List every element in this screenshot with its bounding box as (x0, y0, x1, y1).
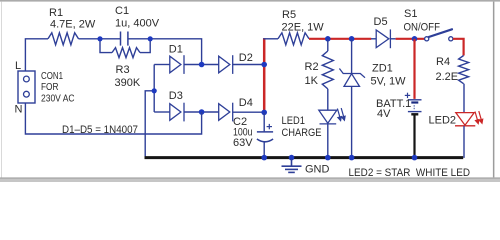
svg-text:63V: 63V (233, 137, 253, 149)
svg-text:D5: D5 (374, 16, 388, 28)
border right (493, 2, 495, 178)
LED LED1 (319, 110, 337, 124)
wire ZD1 to rail (351, 86, 353, 157)
node rail battery (412, 155, 418, 161)
wire D1 row left (154, 64, 170, 66)
wire LED2 to rail (463, 126, 465, 158)
diode D3 (170, 103, 184, 122)
wire D1 to D2 (184, 64, 219, 66)
wire R5 to D5 red (309, 38, 371, 40)
node rail D4 (261, 110, 267, 116)
node D3-D4 (199, 109, 205, 115)
wire D3 row left (154, 111, 170, 113)
svg-text:D1: D1 (169, 44, 183, 56)
C2 plus sign (267, 124, 272, 129)
wire S1 to R4 red (453, 39, 464, 56)
svg-text:LED2 = STAR WHITE LED: LED2 = STAR WHITE LED (349, 167, 471, 179)
svg-text:CON1: CON1 (41, 71, 63, 82)
node rail GND (289, 155, 295, 161)
border bottom line (0, 177, 500, 179)
wire D5 to S1 red (396, 38, 425, 40)
node C1-R3 out (148, 36, 153, 41)
wire R1 to C1 (79, 38, 121, 40)
svg-text:R2: R2 (305, 61, 319, 73)
svg-text:4.7E, 2W: 4.7E, 2W (50, 19, 96, 31)
svg-text:R1: R1 (49, 7, 63, 19)
wire C2 to rail (263, 142, 265, 158)
ground symbol (282, 159, 302, 172)
wire C1 to bridge (128, 39, 202, 65)
wire battery to rail black (413, 115, 415, 157)
svg-text:R4: R4 (436, 56, 450, 68)
svg-text:CHARGE: CHARGE (282, 127, 322, 139)
capacitor C2 (257, 132, 273, 142)
node rail D2 (261, 62, 267, 68)
wire R2 top lead (327, 39, 329, 51)
svg-text:390K: 390K (115, 77, 141, 89)
resistor R5 (278, 33, 309, 45)
svg-text:D4: D4 (239, 97, 253, 109)
svg-text:1u, 400V: 1u, 400V (115, 18, 160, 30)
svg-text:LED1: LED1 (282, 115, 306, 127)
node rail ZD1 (349, 155, 355, 161)
svg-text:D3: D3 (169, 90, 183, 102)
resistor R3 (112, 48, 140, 58)
battery BATT.1 (408, 100, 422, 115)
wire D2 to rail (233, 64, 264, 66)
switch S1 (425, 29, 453, 41)
node ZD1 tap (349, 36, 355, 42)
LED LED2 (455, 113, 475, 126)
connector CON1 (18, 71, 35, 103)
svg-text:1K: 1K (305, 75, 319, 87)
diode D5 (376, 29, 390, 48)
wire rail to R5 (263, 38, 278, 40)
node bridge minus (152, 88, 157, 93)
svg-text:ON/OFF: ON/OFF (404, 22, 441, 34)
zener ZD1 top lead (351, 39, 353, 74)
svg-text:ZD1: ZD1 (372, 63, 393, 75)
border left (1, 2, 2, 178)
wire D4 to rail (233, 111, 264, 113)
svg-text:R5: R5 (282, 9, 296, 21)
node rail LED1 (325, 155, 331, 161)
svg-text:2.2E: 2.2E (436, 71, 459, 83)
svg-text:FOR: FOR (41, 82, 59, 93)
wire R4 to LED2 (463, 84, 465, 113)
LED1 arrows (337, 108, 345, 121)
svg-text:R3: R3 (116, 64, 130, 76)
wire L line top (25, 39, 48, 71)
diode D1 (170, 55, 184, 74)
svg-text:4V: 4V (377, 108, 391, 120)
node R1-C1-R3 (97, 36, 102, 41)
resistor R3 branch (100, 39, 112, 53)
resistor R4 (459, 56, 469, 84)
wire R2 to LED1 (327, 89, 329, 110)
svg-text:S1: S1 (404, 8, 417, 20)
node R2 tap (325, 36, 331, 42)
wire rail to C2 (263, 113, 265, 132)
wire N line bottom (25, 103, 201, 134)
diode D4 (219, 103, 233, 122)
border top (0, 0, 500, 2)
wire D3 to D4 (184, 111, 219, 113)
node D1-D2 (199, 62, 205, 68)
svg-text:GND: GND (305, 164, 330, 176)
resistor R2 (322, 51, 333, 89)
node battery tap (412, 36, 418, 42)
capacitor C1 (121, 32, 128, 46)
resistor R1 (48, 33, 79, 45)
diode D5 leads (371, 38, 396, 40)
svg-text:22E, 1W: 22E, 1W (282, 22, 325, 34)
LED2 arrows (475, 111, 483, 124)
wire battery red drop (413, 39, 415, 99)
diode D2 (219, 55, 233, 74)
wire bridge left vertical (153, 65, 155, 113)
svg-text:N: N (15, 104, 23, 116)
svg-text:C1: C1 (115, 5, 129, 17)
wire bridge minus to ground (145, 91, 154, 158)
rail plus red vertical (263, 38, 266, 113)
svg-text:5V, 1W: 5V, 1W (371, 76, 407, 88)
svg-text:D1–D5 = 1N4007: D1–D5 = 1N4007 (62, 124, 138, 136)
wire LED1 to rail (327, 124, 329, 158)
svg-text:L: L (15, 60, 21, 72)
border bottom strip (0, 179, 500, 182)
battery plus sign (405, 93, 410, 98)
wire R3 right (140, 39, 150, 53)
svg-text:D2: D2 (239, 52, 253, 64)
node rail C2 (261, 155, 267, 161)
zener ZD1 (339, 69, 365, 87)
svg-text:LED2: LED2 (429, 115, 457, 127)
ground rail (145, 156, 464, 159)
svg-text:230V AC: 230V AC (41, 94, 75, 105)
